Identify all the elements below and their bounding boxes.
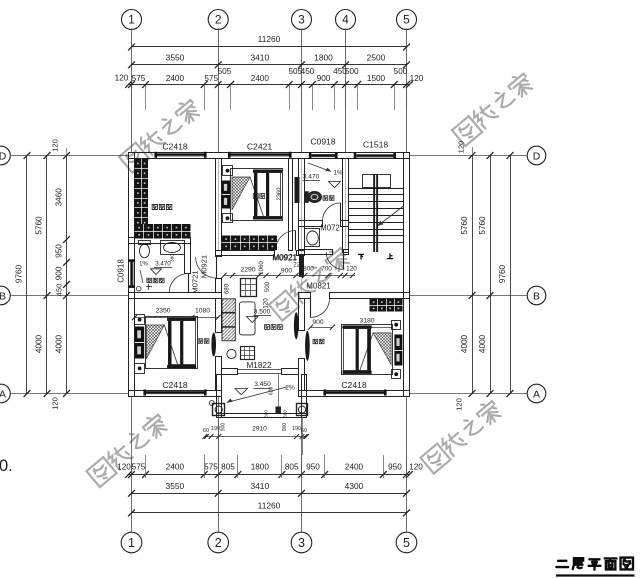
toilet bath-topright	[305, 191, 322, 203]
window C0918 left wall	[117, 259, 135, 288]
grid bubble D right	[410, 146, 546, 165]
svg-text:120: 120	[410, 74, 424, 83]
watermark 4 (bottom-left)	[86, 411, 169, 487]
svg-text:D: D	[533, 150, 541, 162]
svg-text:500: 500	[394, 67, 408, 76]
bottom dimension row detail	[117, 455, 423, 478]
svg-text:2: 2	[215, 13, 222, 27]
svg-text:5760: 5760	[35, 216, 44, 235]
svg-text:575: 575	[132, 74, 146, 83]
svg-text:2400: 2400	[166, 74, 185, 83]
living room table	[239, 302, 255, 335]
wall B horizontal left	[129, 293, 222, 299]
svg-text:3: 3	[298, 536, 305, 550]
svg-text:M072: M072	[320, 224, 340, 233]
svg-text:450: 450	[55, 284, 64, 297]
svg-text:4000: 4000	[35, 334, 44, 353]
bathroom-left level mark 3.470	[139, 261, 172, 284]
svg-text:2500: 2500	[367, 53, 386, 63]
svg-text:60: 60	[203, 428, 209, 434]
svg-text:120: 120	[51, 397, 60, 410]
watermark 1 (top-left)	[119, 97, 202, 173]
svg-text:500: 500	[345, 67, 359, 76]
svg-text:60: 60	[301, 428, 307, 434]
floor drain bathroom-left	[136, 284, 152, 291]
balcony level 3.450	[235, 381, 272, 395]
svg-text:900: 900	[312, 319, 324, 326]
svg-text:4000: 4000	[55, 334, 64, 353]
svg-text:M0921: M0921	[272, 254, 297, 263]
svg-text:3.470: 3.470	[303, 174, 320, 181]
svg-text:2910: 2910	[252, 426, 267, 433]
sink room fixture	[305, 229, 320, 247]
svg-text:1080: 1080	[195, 308, 210, 315]
svg-text:2400: 2400	[345, 463, 364, 472]
svg-text:120: 120	[263, 298, 270, 309]
window C2418 top-left	[154, 142, 206, 158]
grid line G4 interior	[345, 159, 347, 253]
svg-text:620: 620	[269, 387, 275, 396]
stair up label	[387, 254, 392, 259]
bed bedroom-right	[342, 321, 403, 379]
exterior wall bottom-left segment	[129, 391, 222, 397]
exterior wall right	[404, 153, 410, 397]
wall B horizontal right	[299, 293, 410, 299]
svg-text:1500: 1500	[367, 74, 386, 83]
living room stool bottom	[241, 346, 255, 360]
closet bottom wall	[129, 238, 191, 244]
svg-text:700: 700	[321, 266, 332, 273]
svg-text:3410: 3410	[250, 481, 269, 491]
grid line G3 interior	[301, 159, 303, 293]
bottom dimension row 11260	[128, 501, 410, 517]
balcony post right	[297, 404, 308, 416]
svg-text:1800: 1800	[314, 53, 333, 63]
svg-text:805: 805	[285, 463, 299, 472]
svg-text:M0921: M0921	[200, 255, 209, 278]
svg-text:C2418: C2418	[162, 142, 188, 152]
bath-topright level 3.470	[303, 174, 341, 188]
bedroom-mid bottom wall	[216, 251, 305, 256]
svg-text:2: 2	[215, 536, 222, 550]
svg-text:M0821: M0821	[306, 282, 331, 291]
balcony rail	[216, 414, 307, 418]
svg-text:B: B	[533, 290, 540, 302]
right dimension column 5760a/4000a	[460, 147, 475, 397]
svg-text:450: 450	[301, 67, 315, 76]
top dimension row 3550/3410/1800/2500	[128, 53, 410, 69]
left edge truncated text	[0, 457, 13, 475]
svg-text:3410: 3410	[250, 53, 269, 63]
balcony drain	[209, 401, 214, 406]
balcony downspout line	[264, 374, 288, 418]
svg-text:4000: 4000	[460, 334, 469, 353]
bedroom-mid right wall	[289, 159, 293, 251]
balcony post left	[213, 404, 225, 416]
sliding door leaf bedroom-left	[211, 333, 216, 357]
svg-text:900: 900	[281, 268, 293, 275]
bottom dimension row 3550/3410/4300	[128, 481, 410, 497]
bedroom-left dims 2350/1080	[132, 308, 221, 321]
bedroom-right dims 900/3180	[308, 318, 392, 330]
door M0721 bathroom-left	[169, 270, 199, 293]
bed bedroom-mid	[222, 166, 283, 223]
svg-text:0.: 0.	[0, 457, 13, 475]
grid line G2 interior	[218, 159, 220, 251]
svg-text:1060: 1060	[258, 261, 265, 275]
svg-text:2%: 2%	[285, 385, 295, 392]
svg-text:1%: 1%	[139, 262, 148, 268]
window C0918 top	[309, 137, 338, 159]
corridor door label M0921h	[272, 254, 297, 263]
left dimension column 9760	[15, 152, 31, 397]
wall G3 mid	[299, 227, 305, 278]
svg-text:9760: 9760	[498, 264, 507, 283]
svg-text:M0721: M0721	[191, 270, 200, 293]
sliding door leaf living G3	[294, 312, 299, 339]
grid bubble 2 top	[208, 10, 228, 153]
svg-text:5: 5	[403, 13, 410, 27]
svg-text:900: 900	[55, 266, 64, 280]
exterior wall bottom-right segment	[299, 391, 410, 397]
bathroom-left right wall	[185, 244, 191, 274]
svg-text:600: 600	[264, 410, 269, 418]
wall G4 (bath/stairs)	[343, 159, 349, 253]
svg-text:9760: 9760	[15, 264, 24, 283]
svg-text:B: B	[0, 290, 6, 302]
svg-text:4: 4	[342, 13, 349, 27]
svg-text:3.470: 3.470	[155, 261, 171, 268]
svg-text:380: 380	[170, 254, 176, 262]
svg-text:2290: 2290	[240, 267, 255, 274]
svg-text:5: 5	[403, 536, 410, 550]
right dimension column 9760	[498, 152, 513, 397]
closet room label	[152, 204, 172, 209]
watermark 3 (top-right)	[452, 70, 535, 146]
door M0921 bedroom-mid	[273, 231, 298, 263]
wall G3 lower (living/bedroom)	[299, 299, 305, 391]
svg-text:2360: 2360	[277, 188, 283, 201]
living room level 3.500	[247, 309, 272, 323]
balcony dims	[203, 417, 309, 455]
grid bubble A right	[410, 384, 546, 403]
grid bubble 3 top	[292, 10, 312, 153]
top dimension row 11260	[128, 34, 410, 50]
svg-text:900: 900	[221, 423, 227, 432]
svg-text:575: 575	[204, 74, 218, 83]
svg-text:120: 120	[457, 141, 466, 154]
grid bubble 5 bottom	[396, 396, 417, 552]
svg-text:11260: 11260	[258, 34, 281, 44]
svg-text:505: 505	[218, 67, 232, 76]
watermark 2 (center)	[269, 245, 352, 321]
door M0821 corridor to bedroom-right	[306, 282, 331, 318]
svg-text:5760: 5760	[460, 216, 469, 235]
svg-text:1: 1	[128, 536, 135, 550]
right dimension column 5760b/4000b	[478, 152, 493, 397]
svg-text:2350: 2350	[155, 308, 170, 315]
balcony left wall	[217, 375, 222, 418]
svg-text:950: 950	[388, 463, 402, 472]
wall G2 lower (bedroom/living)	[216, 299, 222, 391]
living room label	[265, 325, 283, 330]
svg-text:C1518: C1518	[363, 140, 389, 150]
svg-text:950: 950	[55, 244, 64, 258]
toilet bathroom-left	[139, 241, 151, 258]
sink bathroom-left	[161, 241, 185, 255]
grid bubble B left	[0, 286, 129, 305]
svg-text:1%: 1%	[334, 170, 343, 177]
bedroom-right label	[313, 339, 324, 343]
left dimension column inner 3460/950/900/450	[55, 148, 70, 397]
grid bubble D left	[0, 146, 129, 165]
watermark 5 (bottom-right)	[420, 398, 503, 474]
svg-text:2400: 2400	[166, 463, 185, 472]
svg-text:805: 805	[221, 463, 235, 472]
svg-text:120: 120	[409, 463, 423, 472]
door bath-topright	[323, 203, 341, 221]
bedroom-mid wardrobe	[222, 236, 278, 251]
grid bubble 5 top	[397, 10, 417, 153]
grid bubble B right	[410, 286, 546, 305]
svg-text:3: 3	[298, 13, 305, 27]
window C2418 bottom-left	[143, 380, 206, 396]
bedroom-left label	[198, 339, 209, 343]
balcony slope line	[227, 385, 295, 403]
top dimension row detail	[115, 67, 424, 110]
svg-text:11260: 11260	[258, 501, 281, 511]
staircase	[349, 174, 404, 252]
living room door label M1822	[246, 361, 271, 370]
bedroom-right wardrobe	[370, 299, 403, 312]
svg-text:680: 680	[224, 283, 231, 294]
svg-text:3180: 3180	[359, 318, 374, 325]
left dimension column 5760/4000	[35, 152, 51, 397]
svg-text:C2418: C2418	[162, 380, 188, 390]
bath-topright slope arrow	[308, 163, 343, 177]
svg-text:C0918: C0918	[117, 259, 126, 283]
bath-topright label	[323, 196, 334, 200]
window C1518 top-right	[354, 140, 396, 159]
door M0921 closet vestibule	[196, 255, 217, 278]
wall G3 upper (bedroom/bath)	[299, 159, 305, 227]
svg-text:120: 120	[117, 463, 131, 472]
grid bubble 2 bottom	[208, 396, 229, 552]
stair down label	[358, 254, 363, 259]
wall G2 mid segment	[216, 279, 222, 293]
door sink room M072	[320, 224, 343, 270]
svg-text:D: D	[0, 150, 7, 162]
svg-text:3550: 3550	[166, 481, 185, 491]
svg-text:5760: 5760	[478, 216, 487, 235]
svg-text:M1822: M1822	[246, 361, 271, 370]
plumbing shaft	[293, 159, 300, 251]
svg-text:575: 575	[204, 463, 218, 472]
grid bubble A left	[0, 384, 129, 403]
living room cabinet	[222, 299, 235, 341]
svg-text:950: 950	[306, 463, 320, 472]
svg-text:1800: 1800	[251, 463, 270, 472]
corridor dimension labels	[221, 261, 357, 309]
svg-text:600: 600	[283, 410, 288, 418]
sliding door leaf bedroom-right	[305, 331, 310, 361]
living room drain circle	[227, 349, 236, 358]
bedroom-mid label	[253, 194, 264, 199]
svg-text:900: 900	[317, 74, 331, 83]
svg-text:800: 800	[303, 266, 314, 273]
svg-text:3460: 3460	[55, 188, 64, 207]
svg-text:500: 500	[264, 281, 271, 292]
grid bubble 3 bottom	[291, 396, 312, 552]
left 120 labels	[51, 139, 60, 410]
svg-text:2400: 2400	[251, 74, 270, 83]
svg-text:900: 900	[282, 423, 288, 432]
svg-text:3550: 3550	[166, 53, 185, 63]
bed bedroom-left	[135, 315, 198, 374]
svg-text:A: A	[0, 388, 6, 400]
svg-text:120: 120	[346, 266, 357, 273]
closet wardrobe vertical strip	[135, 159, 149, 238]
grid bubble 1 top	[122, 10, 142, 153]
svg-text:C2418: C2418	[341, 380, 367, 390]
bath-topright bottom wall	[299, 221, 349, 227]
bathroom-left label	[147, 278, 164, 282]
svg-text:1: 1	[128, 13, 135, 27]
right 120 labels	[455, 141, 466, 411]
closet wardrobe horizontal strip	[135, 224, 191, 239]
living room stool top	[240, 279, 256, 297]
window C2421 top-middle	[228, 142, 292, 158]
exterior wall top	[129, 153, 410, 159]
living room bottom wall with M1822 opening	[222, 369, 299, 375]
exterior wall left	[129, 153, 135, 397]
wall G2 upper (closet/bedroom)	[216, 159, 222, 257]
window C2418 bottom-right	[323, 380, 386, 396]
grid bubble 1 bottom	[121, 396, 142, 552]
svg-text:120: 120	[51, 139, 60, 152]
title second floor plan	[556, 558, 635, 576]
svg-text:4000: 4000	[478, 334, 487, 353]
svg-text:120: 120	[455, 398, 464, 411]
svg-text:A: A	[533, 388, 540, 400]
balcony right wall	[302, 375, 307, 418]
svg-text:120: 120	[115, 74, 129, 83]
svg-text:C2421: C2421	[247, 142, 273, 152]
svg-text:C0918: C0918	[310, 137, 336, 147]
svg-text:4300: 4300	[345, 481, 364, 491]
grid bubble 4 top	[336, 10, 356, 153]
svg-text:3.500: 3.500	[254, 309, 271, 316]
svg-text:575: 575	[132, 463, 146, 472]
sink room bottom wall	[299, 250, 349, 255]
svg-text:190: 190	[292, 426, 301, 432]
